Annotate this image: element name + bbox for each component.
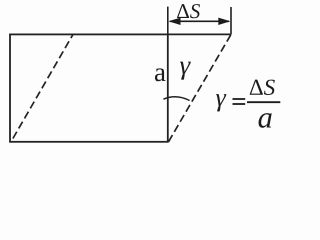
dimension arrowhead right [218,18,230,25]
wire: dashed sheared edge left [11,34,73,141]
label a (side) [155,68,166,81]
formula equals sign (two bars) [233,98,246,100]
formula fraction bar [247,101,280,103]
formula denominator a [259,113,272,128]
rectangle (original element outline) [10,34,168,141]
wire: parallelogram top edge (solid continuation of top side) [168,33,231,35]
formula numerator ΔS [250,80,275,95]
wire: dashed sheared edge right [169,34,232,141]
label ΔS (top dimension) [177,4,200,18]
dimension arrowhead left [168,18,180,25]
formula gamma [216,94,226,111]
label γ (angle) [180,62,191,80]
dimension arrow shaft [170,20,229,22]
angle arc [163,97,189,101]
extension line left [167,7,169,35]
extension line right [230,7,232,35]
